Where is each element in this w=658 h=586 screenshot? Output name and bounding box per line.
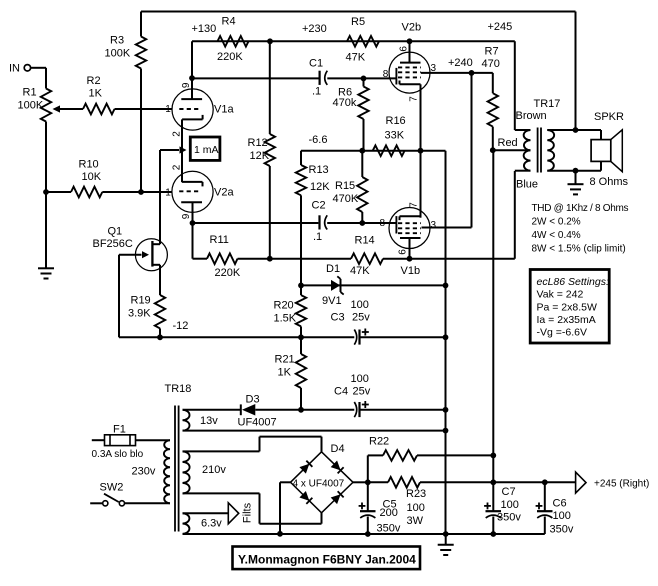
svg-text:8: 8 [383,69,389,80]
svg-text:1K: 1K [89,88,103,100]
wire V1b plate pin6 down [409,238,411,259]
resistor R11 220K [193,258,208,260]
wire main ground line [183,533,545,535]
wire cathode junction to V2a [181,150,183,182]
wire Red tap [493,149,531,151]
ground speaker [568,183,584,185]
svg-text:350v: 350v [550,524,574,536]
svg-text:V2a: V2a [214,187,234,199]
wire V2b pin6 to rail [409,41,411,62]
svg-text:R13: R13 [309,164,329,176]
svg-text:100: 100 [351,299,369,311]
wire 13v to D3 [183,409,241,411]
svg-text:D1: D1 [326,263,340,275]
resistor R16 33K [373,145,405,156]
svg-text:SW2: SW2 [100,482,124,494]
wire Q1 source to R19 [159,265,161,295]
svg-text:470k: 470k [333,97,357,109]
svg-text:200: 200 [380,507,398,519]
svg-text:R15: R15 [335,180,355,192]
TR17 primary winding [524,130,531,171]
bridge diode top-right [331,460,341,470]
D1 zener bottom hook [341,292,344,295]
svg-text:8 Ohms: 8 Ohms [590,176,629,188]
speaker SPKR 8 Ohms [576,129,602,131]
junction bridge out/C5/R23 [365,479,371,485]
junction R16/V2b pin7/V1b pin7 [418,148,424,154]
wire +245 bus down (Red to C7) [492,150,494,511]
resistor R23 100 3W [368,481,388,483]
wire R19 to -12 line [159,328,161,337]
wire rail down right side to speaker [575,12,577,131]
wire V1b pin3 [422,227,472,229]
R1 wiper arrow [53,105,61,112]
svg-text:9V1: 9V1 [322,295,342,307]
wire C1 to V2b pin8 [327,77,396,79]
junction R4/R5/R12 [267,38,273,44]
junction speaker top [573,127,579,133]
wire Brown to primary [515,129,531,131]
svg-text:.1: .1 [313,231,322,243]
svg-text:R12: R12 [248,137,268,149]
wire -6.6 R16 line [301,150,446,152]
svg-text:R2: R2 [87,75,101,87]
ground main [445,534,447,545]
wire R6 to R16 line [363,119,365,151]
junction V1b pin6/R14 line [407,256,413,262]
svg-text:Filts: Filts [242,502,254,523]
wire down to R1 [45,68,47,89]
svg-text:D4: D4 [331,443,345,455]
svg-text:+230: +230 [302,23,327,35]
wire to R6 [363,78,365,86]
svg-text:100: 100 [351,373,369,385]
bridge diode top-left [299,464,309,474]
pentode V2b [389,52,430,93]
junction R20/R21/C3 line [298,334,304,340]
wire V2b pin3 to +240 [421,72,472,74]
wire C5 to ground line [367,517,369,535]
wire node to C4 [301,409,354,411]
wire to bridge bottom [260,523,322,525]
wire down to bridge top corner [321,437,323,452]
box ecL86 settings [530,270,609,344]
svg-text:Brown: Brown [516,110,547,122]
wire pin9 V1a [191,78,193,99]
svg-text:12K: 12K [250,150,270,162]
svg-text:470: 470 [482,58,500,70]
svg-text:2W < 0.2%: 2W < 0.2% [532,217,581,228]
svg-text:1.5K: 1.5K [274,313,297,325]
junction C5/ground line [365,531,371,537]
wire gate to R19 bottom [119,336,160,338]
wire to R21 [300,337,302,354]
svg-text:Q1: Q1 [108,226,123,238]
svg-text:25v: 25v [352,312,370,324]
svg-text:3: 3 [431,220,437,231]
transformer TR17 core [537,128,539,173]
wire Blue lead [515,170,531,172]
wire up jog [259,437,261,452]
svg-text:6.3v: 6.3v [201,518,222,530]
wire R16 node down ground bus [445,151,447,535]
svg-text:C3: C3 [331,312,345,324]
Filts arrow [228,503,238,524]
svg-text:3.9K: 3.9K [128,308,151,320]
wire +245 rail down to TR17 Brown [514,41,516,130]
wire 210v top [183,450,260,452]
wire Q1 drain up to cathode arrow [159,150,161,244]
svg-text:10K: 10K [82,171,102,183]
svg-text:C6: C6 [553,498,567,510]
wire D1 line [301,284,446,286]
junction R1/R10/ground [43,189,49,195]
svg-text:R1: R1 [23,87,37,99]
wire wiper to R2 [60,108,83,110]
wire rail to R3 [140,12,142,37]
svg-text:0.3A slo blo: 0.3A slo blo [92,449,144,460]
junction rail/V2b pin6 [407,38,413,44]
capacitor C3 100 25v [354,330,356,345]
svg-text:220K: 220K [215,267,241,279]
svg-text:25v: 25v [353,386,371,398]
svg-text:V1b: V1b [401,265,421,277]
wire F1 to primary [136,439,171,441]
wire V2b cathode pin7 down [420,84,422,150]
wire R12 node to R14 [270,258,351,260]
wire to bridge top [260,436,322,438]
svg-text:6: 6 [399,46,410,52]
junction C4/ground bus [443,407,449,413]
junction R21/D3/C4 [298,407,304,413]
wire R7 top [492,73,494,93]
capacitor C5 200 350v [367,482,369,511]
wire R2 to V1a grid pin1 [115,108,173,110]
svg-text:Ia = 2x35mA: Ia = 2x35mA [537,314,596,326]
svg-text:R20: R20 [274,300,294,312]
wire C6 top [544,482,546,511]
wire up to bridge bottom corner [321,513,323,524]
svg-text:SPKR: SPKR [594,111,624,123]
junction C6 [542,479,548,485]
TR18 6.3v winding [183,513,190,534]
Q1 source lead [152,264,160,266]
svg-text:Blue: Blue [516,179,538,191]
wire R1 bottom to node [45,122,47,193]
wire 13v return to ground bus [183,430,446,432]
junction C7/ground line [490,531,496,537]
svg-text:R11: R11 [210,234,229,246]
svg-text:1 mA: 1 mA [194,144,219,156]
svg-text:220K: 220K [217,51,243,63]
svg-text:+245 (Right): +245 (Right) [594,479,649,490]
D1 triangle [331,280,340,291]
svg-text:9: 9 [181,82,192,88]
svg-text:100: 100 [501,499,519,511]
junction V1a plate/C1 line [189,75,195,81]
wire Q1 gate down [118,255,120,338]
wire to speaker ground [575,171,577,185]
wire R7 to Red tap [492,127,494,151]
svg-text:+245: +245 [488,21,513,33]
svg-text:100: 100 [553,510,571,522]
transformer TR18 core [174,406,176,532]
svg-text:Y.Monmagnon F6BNY Jan.2004: Y.Monmagnon F6BNY Jan.2004 [238,553,416,567]
box title [233,547,421,570]
Q1 drain lead [152,243,160,245]
capacitor C2 .1 [318,215,320,229]
wire down jog [259,493,261,523]
TR18 13v winding [183,410,190,431]
svg-text:F1: F1 [113,424,126,436]
svg-text:ecL86 Settings:: ecL86 Settings: [537,276,609,288]
triode V2a [172,171,213,212]
wire R22 to +245 bus [417,454,493,456]
svg-text:1: 1 [165,104,171,115]
svg-text:47K: 47K [350,265,370,277]
junction R11/R12/R14 [267,256,273,262]
junction +240 node [469,70,475,76]
current arrow 1 mA into cathodes [160,149,179,151]
svg-text:THD @ 1Khz / 8 Ohms: THD @ 1Khz / 8 Ohms [532,203,629,214]
output arrow +245 Right [576,472,586,493]
svg-text:IN: IN [9,63,20,75]
svg-text:3W: 3W [407,515,424,527]
wire to R10 [46,191,71,193]
svg-text:UF4007: UF4007 [238,417,277,429]
junction R6/R15/R16 line [359,148,365,154]
svg-text:C7: C7 [502,486,516,498]
D3 cathode bar [240,404,242,415]
svg-text:R22: R22 [369,436,389,448]
svg-text:2: 2 [172,131,183,137]
wire to ground [45,192,47,268]
svg-text:D3: D3 [246,394,260,406]
svg-text:-12: -12 [173,320,189,332]
bridge diode bottom-left [299,491,309,501]
wire R11 to R12 bottom [238,258,270,260]
ground below R1 [38,267,54,269]
D1 zener bar [340,279,342,292]
resistor R2 1K [83,104,115,115]
svg-text:R10: R10 [79,159,99,171]
svg-text:-6.6: -6.6 [309,134,328,146]
wire V1b pin7 up to R16 node [420,151,422,218]
svg-text:470K: 470K [333,193,359,205]
junction speaker bottom/ground [573,168,579,174]
svg-text:-Vg =-6.6V: -Vg =-6.6V [537,327,588,339]
wire R22 left leg [367,455,369,482]
Q1 gate arrow [142,251,149,258]
junction ground symbol [443,531,449,537]
wire rail down to V1a plate [191,41,193,78]
svg-text:BF256C: BF256C [93,238,133,250]
junction Red tap [490,147,496,153]
svg-text:TR18: TR18 [165,383,192,395]
svg-text:R5: R5 [351,16,365,28]
wire V2a plate down pin9 [192,202,194,223]
wire secondary bottom [547,170,575,172]
wire +240 to R7 [472,72,493,74]
wire D3 to R21/C4 node [255,409,301,411]
transistor Q1 BF256C JFET [135,239,167,271]
junction R23/C7 bus [490,479,496,485]
svg-text:2: 2 [172,164,183,170]
junction bridge minus/ground line [277,531,283,537]
junction C2/R15 [359,220,365,226]
junction R13/R20/D1 [298,283,304,289]
svg-text:C2: C2 [312,200,326,212]
junction D1/ground bus [443,283,449,289]
wire V1a cathode down (pin2) [181,119,183,150]
capacitor C1 .1 [319,71,321,85]
switch SW2 [90,502,102,504]
wire mains to F1 [92,439,105,441]
wire R10 to junction [102,191,141,193]
wire bridge left corner to ground [280,481,291,483]
svg-text:+240: +240 [448,57,473,69]
wire R20 to C3 line [300,326,302,337]
svg-text:R16: R16 [386,115,406,127]
svg-text:230v: 230v [132,466,156,478]
svg-text:7: 7 [409,202,420,208]
triode V1a [172,89,213,130]
wire plate to C1 [192,77,319,79]
junction 13v return/ground bus [443,428,449,434]
wire R15 to C2 line [361,212,363,223]
wire to R13 [300,151,302,165]
svg-text:R21: R21 [275,354,295,366]
junction C3/ground bus [443,334,449,340]
wire R13 to D1 line [300,195,302,285]
svg-text:8: 8 [380,218,386,229]
junction R22/+245 bus [490,453,496,459]
wire rail to R12 [269,41,271,134]
svg-text:TR17: TR17 [534,98,561,110]
D3 triangle [242,404,255,416]
wire R12 to R11 line [269,166,271,259]
svg-text:R4: R4 [222,16,236,28]
svg-text:C4: C4 [334,386,348,398]
wire C4 to ground bus [361,409,446,411]
svg-text:100K: 100K [18,100,44,112]
svg-text:Vak = 242: Vak = 242 [537,289,584,301]
wire top +245 rail [141,11,576,13]
wire to R20 [300,285,302,295]
svg-text:1: 1 [165,188,171,199]
wire to C3 [301,336,354,338]
SW2 lever [104,494,119,502]
svg-text:C1: C1 [309,58,323,70]
svg-text:4W < 0.4%: 4W < 0.4% [532,230,581,241]
svg-text:R19: R19 [131,295,151,307]
resistor R5 47K [347,36,379,47]
svg-text:V2b: V2b [402,22,422,34]
svg-text:350v: 350v [497,512,521,524]
svg-text:47K: 47K [346,52,366,64]
pentode V1b [389,208,430,249]
svg-text:R23: R23 [406,488,426,500]
svg-text:3: 3 [431,63,437,74]
bridge rectifier D4 4 x UF4007 [291,452,354,513]
wire C7 to ground [492,517,494,535]
svg-text:33K: 33K [385,130,405,142]
wire V2a plate to R11 [192,223,194,259]
svg-text:1K: 1K [278,367,292,379]
Q1 channel bar [151,241,153,267]
wire junction to V2a grid pin1 [141,191,172,193]
capacitor C4 100 25v [354,402,356,417]
node IN input terminal [24,65,30,71]
junction C1/R6 [361,76,367,82]
resistor R1 100K potentiometer [41,89,51,122]
wire C3 to ground bus [361,336,446,338]
wire +240 down to V1b pin3 [471,73,473,228]
wire 210v bottom [183,492,260,494]
svg-text:.1: .1 [312,86,321,98]
svg-text:Red: Red [498,137,518,149]
Q1 gate wire [119,254,142,256]
svg-text:350v: 350v [377,523,401,535]
junction V2a plate/C2/R11 [190,220,196,226]
svg-text:100K: 100K [105,48,131,60]
wire R21 to D3 line [300,388,302,410]
svg-text:R3: R3 [110,35,124,47]
svg-text:V1a: V1a [214,104,234,116]
svg-text:4 x UF4007: 4 x UF4007 [293,479,345,490]
wire R14 to V1b pin6 [383,258,410,260]
D1 zener top hook [337,276,340,279]
wire bridge plus output [353,481,368,483]
svg-text:9: 9 [181,213,192,219]
wire R3 bottom to grid node [140,69,142,193]
bridge diode bottom-right [331,494,341,504]
box 1 mA indicator [190,137,220,160]
svg-text:210v: 210v [202,464,226,476]
wire Blue down to R14 line [514,171,516,259]
junction R3/R10/V2a grid [138,189,144,195]
wire +130/+230/+245 rail [192,40,515,42]
svg-text:100: 100 [407,502,425,514]
svg-text:Pa = 2x8.5W: Pa = 2x8.5W [537,302,597,314]
wire pin6 to Blue feedback [410,258,515,260]
wire to R15 [361,151,363,177]
wire V2a plate to C2 [193,222,319,224]
svg-text:6: 6 [398,249,409,255]
TR18 primary 230v winding [164,440,170,503]
wire -12 line to R20/R21 node [160,336,301,338]
resistor R19 3.9K [155,295,165,328]
svg-text:R14: R14 [355,235,375,247]
junction R19/-12 line [157,334,163,340]
svg-text:8W < 1.5% (clip limit): 8W < 1.5% (clip limit) [532,244,626,255]
svg-text:R7: R7 [485,46,499,58]
wire secondary top to speaker [547,129,575,131]
wire 6.3v to Filts [183,512,229,514]
TR17 secondary winding [547,130,554,171]
TR18 210v winding [183,451,190,493]
wire C2 to V1b pin8 [327,222,396,224]
svg-text:7: 7 [409,96,420,102]
wire R23 to output [420,481,576,483]
wire SW2 to primary bottom [125,502,171,504]
svg-text:12K: 12K [310,181,330,193]
wire IN to R1 top [31,67,46,69]
resistor R4 220K [218,36,249,47]
svg-text:+130: +130 [192,23,217,35]
wire C6 bottom [544,517,546,535]
svg-text:13v: 13v [200,415,218,427]
